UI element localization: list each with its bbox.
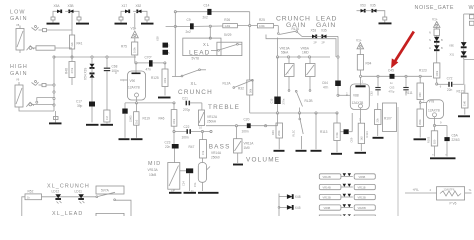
- svg-text:R119: R119: [143, 117, 151, 121]
- svg-text:R46: R46: [159, 117, 165, 121]
- relay coil box VR14B: [319, 184, 341, 189]
- opto couplers left column: [156, 36, 176, 77]
- svg-text:VR11A: VR11A: [244, 141, 255, 145]
- wire pot2 bottom to ground row: [19, 107, 54, 111]
- ground under R107: [373, 137, 384, 139]
- potentiometer VR19A: [280, 47, 295, 92]
- relay switch RL3C: [292, 113, 304, 149]
- resistor R114: [358, 123, 369, 151]
- svg-text:P V6: P V6: [450, 202, 457, 206]
- triode V78: [423, 99, 444, 131]
- svg-text:B: B: [441, 38, 443, 42]
- relay outline XL LEAD: [183, 38, 221, 56]
- capacitor C68: [104, 56, 119, 110]
- svg-text:R47: R47: [189, 145, 195, 149]
- wire diode node down: [65, 10, 69, 12]
- wire node to R41: [47, 29, 73, 31]
- svg-text:X5A: X5A: [54, 4, 61, 8]
- footswitch lever: [96, 192, 116, 200]
- svg-text:12AX7FIL: 12AX7FIL: [444, 188, 456, 192]
- svg-text:5V78: 5V78: [192, 57, 200, 61]
- svg-text:22/63: 22/63: [128, 115, 132, 122]
- svg-text:C22: C22: [184, 125, 190, 129]
- svg-text:270p: 270p: [183, 108, 190, 112]
- LED LD12: [52, 190, 62, 204]
- wire FIL right: [465, 192, 472, 194]
- ground under C19: [119, 138, 130, 140]
- wire FIL left: [405, 192, 437, 194]
- svg-text:RL2A: RL2A: [223, 81, 232, 85]
- svg-text:VR13B: VR13B: [358, 196, 366, 200]
- wire gain return y38.7: [266, 35, 336, 58]
- svg-text:C64: C64: [322, 81, 328, 85]
- svg-text:V1+: V1+: [432, 17, 438, 21]
- svg-text:R25: R25: [259, 18, 265, 22]
- svg-text:VR14A: VR14A: [211, 151, 222, 155]
- potentiometer VR14A BASS: [198, 163, 210, 192]
- ground under RL3C: [296, 150, 307, 152]
- capacitor C9: [186, 18, 194, 34]
- resistor series low input: [27, 46, 73, 51]
- svg-text:V88: V88: [353, 94, 359, 98]
- potentiometer VR12A TREBLE: [199, 103, 205, 130]
- coupler arrows row4: [341, 204, 353, 207]
- svg-text:X35: X35: [370, 4, 376, 8]
- wire bus to rear switches: [278, 194, 280, 217]
- svg-text:1k5: 1k5: [359, 136, 363, 141]
- svg-text:R114: R114: [365, 131, 369, 138]
- node V1+ noise gate: [432, 17, 440, 27]
- svg-text:2P: 2P: [314, 41, 317, 45]
- box pad gnd: [54, 117, 59, 120]
- wire X52 right leg: [142, 11, 148, 17]
- ground under X35: [379, 22, 392, 24]
- wire X17 left leg: [121, 11, 125, 17]
- diode X22: [429, 42, 443, 50]
- svg-text:LOW: LOW: [10, 10, 26, 16]
- treble wiper wire row: [206, 125, 278, 127]
- triode V88: [346, 75, 369, 124]
- cathode node wire: [125, 102, 174, 104]
- svg-text:12AX7B: 12AX7B: [128, 86, 140, 90]
- diode X35: [321, 29, 327, 45]
- svg-text:100k: 100k: [133, 47, 137, 53]
- svg-text:100k: 100k: [163, 77, 167, 83]
- svg-text:X35: X35: [321, 29, 327, 33]
- svg-text:R75: R75: [121, 45, 127, 49]
- resistor R105: [417, 109, 424, 138]
- svg-text:2n2: 2n2: [203, 15, 209, 19]
- resistor R75: [121, 38, 138, 63]
- node V1+: [131, 26, 139, 38]
- svg-text:1MD: 1MD: [302, 51, 309, 55]
- svg-text:470k: 470k: [335, 132, 339, 138]
- svg-text:100k: 100k: [259, 24, 265, 28]
- wire bottom bus y113: [250, 112, 338, 126]
- resistor R41: [70, 30, 83, 57]
- svg-text:V1+: V1+: [356, 39, 362, 43]
- svg-text:X17: X17: [122, 4, 128, 8]
- svg-text:X9E: X9E: [449, 43, 454, 47]
- diode X5A: [54, 4, 62, 13]
- ground under R113: [331, 153, 342, 155]
- svg-text:47n: 47n: [146, 68, 152, 72]
- svg-text:R48: R48: [65, 68, 69, 74]
- svg-text:R113: R113: [320, 130, 328, 134]
- capacitor C69: [340, 113, 353, 143]
- svg-text:VR14B: VR14B: [323, 186, 331, 190]
- wire top bus y57: [54, 56, 136, 58]
- svg-text:260k: 260k: [277, 130, 281, 136]
- svg-text:250kA: 250kA: [207, 120, 217, 124]
- noise gate input diodes: [464, 14, 474, 42]
- diode X48: [279, 194, 301, 199]
- relay switch RL2B: [295, 90, 312, 113]
- ground under R105: [414, 138, 427, 140]
- svg-text:2n2: 2n2: [186, 30, 192, 34]
- ground under R119: [131, 138, 143, 140]
- wire R52 to LEDs: [42, 196, 97, 198]
- shared ground bar: [430, 154, 456, 159]
- resistor R103: [427, 131, 438, 157]
- svg-text:BASS: BASS: [209, 144, 231, 151]
- svg-text:R32: R32: [238, 87, 244, 91]
- svg-text:R103: R103: [427, 136, 431, 143]
- potentiometer VR high-gain: [15, 82, 23, 107]
- ground under R114: [355, 152, 367, 154]
- section label MID: [148, 161, 162, 177]
- svg-text:VR20B: VR20B: [358, 206, 366, 210]
- capacitor C64: [322, 56, 350, 97]
- box pad high input: [42, 84, 46, 87]
- relay coil box VR11B: [354, 184, 375, 189]
- svg-text:B: B: [441, 46, 443, 50]
- svg-text:1M0: 1M0: [244, 146, 250, 150]
- ground top right: [458, 115, 470, 117]
- box pad right: [77, 17, 81, 20]
- svg-text:22n: 22n: [447, 88, 453, 92]
- svg-text:RL2B: RL2B: [305, 99, 313, 103]
- ground mute leg: [311, 150, 322, 152]
- resistor R46: [159, 103, 177, 132]
- ground X52: [141, 20, 154, 24]
- ground under R120: [101, 124, 114, 126]
- box input pad: [43, 29, 47, 32]
- svg-text:LD11: LD11: [75, 190, 83, 194]
- jack switch high input: [32, 81, 39, 86]
- wire jack to bus: [39, 84, 43, 86]
- resistor R121: [457, 84, 469, 114]
- svg-text:1k5: 1k5: [134, 119, 138, 124]
- svg-text:C9: C9: [187, 18, 191, 22]
- wire node to switch bus: [71, 13, 73, 30]
- potentiometer VR low-gain: [16, 26, 24, 51]
- wire diode mid node down: [133, 10, 137, 12]
- svg-text:V8: V8: [16, 23, 20, 27]
- wire diode pair left leg: [53, 11, 57, 17]
- resistor R125: [151, 63, 168, 96]
- svg-text:C70*: C70*: [145, 56, 153, 60]
- label XL LEAD: [189, 42, 211, 56]
- resistor R120: [104, 110, 110, 124]
- resistor R26: [223, 18, 258, 28]
- capacitor C21: [173, 96, 202, 112]
- resistor R119: [134, 103, 151, 138]
- box pad left: [51, 17, 55, 20]
- svg-text:56kA: 56kA: [281, 51, 289, 55]
- resistor R49: [271, 123, 283, 149]
- svg-text:V9: V9: [16, 78, 20, 82]
- svg-text:V90: V90: [130, 79, 136, 83]
- svg-text:VR12A: VR12A: [207, 115, 218, 119]
- svg-text:X48: X48: [295, 195, 301, 199]
- ground under R125: [158, 97, 171, 99]
- svg-text:1M: 1M: [105, 116, 109, 120]
- svg-text:47k: 47k: [201, 150, 205, 155]
- svg-text:100n: 100n: [242, 130, 249, 134]
- resistor R48: [65, 56, 76, 85]
- svg-text:100n: 100n: [182, 136, 189, 140]
- svg-text:X54 X39: X54 X39: [84, 68, 88, 80]
- svg-text:C20: C20: [244, 118, 250, 122]
- diode pair X53b: [357, 4, 387, 23]
- svg-text:R41: R41: [77, 42, 83, 46]
- svg-text:22k: 22k: [376, 118, 380, 123]
- svg-text:N: N: [429, 31, 431, 35]
- svg-text:RL3C: RL3C: [292, 130, 296, 137]
- svg-text:56k: 56k: [249, 88, 253, 93]
- relay coil box VR20B: [354, 205, 375, 210]
- svg-text:V1+: V1+: [131, 26, 137, 30]
- relay coil box VR9B: [319, 205, 341, 210]
- svg-text:C72: C72: [447, 77, 453, 81]
- node V1+ feed: [356, 39, 364, 55]
- svg-text:X31: X31: [450, 53, 455, 57]
- svg-text:C15: C15: [270, 98, 274, 103]
- capacitor C22 labels: [182, 125, 190, 140]
- svg-text:VR13A: VR13A: [148, 168, 159, 172]
- svg-text:CRUNCH: CRUNCH: [178, 89, 213, 96]
- resistor R25: [257, 18, 278, 28]
- svg-text:470p: 470p: [389, 89, 395, 93]
- svg-text:LEAD: LEAD: [189, 50, 211, 57]
- relay coil box VR13Bb: [354, 194, 375, 199]
- diode X53: [311, 29, 317, 45]
- resistor R47: [189, 132, 207, 163]
- filament box P V6: [437, 187, 465, 206]
- svg-text:R123: R123: [419, 69, 427, 73]
- svg-text:100k: 100k: [435, 70, 439, 76]
- svg-text:1M0: 1M0: [418, 92, 422, 98]
- resistor R94: [357, 55, 371, 77]
- svg-text:47n: 47n: [323, 86, 329, 90]
- svg-text:NOISE_GATE: NOISE_GATE: [415, 5, 455, 11]
- svg-text:MID: MID: [148, 161, 161, 167]
- svg-text:A: A: [429, 46, 431, 50]
- svg-text:X3B: X3B: [68, 4, 74, 8]
- svg-text:VR6B: VR6B: [359, 175, 366, 179]
- junction node C9-R26: [209, 25, 211, 39]
- svg-text:0: 0: [115, 71, 117, 75]
- svg-text:470k: 470k: [70, 67, 74, 73]
- svg-text:C69: C69: [350, 137, 354, 142]
- capacitor C63: [389, 76, 409, 95]
- diode X31: [450, 48, 467, 60]
- ground row tone stack: [169, 189, 219, 193]
- net label +FIL: [413, 188, 432, 192]
- svg-text:C21: C21: [182, 96, 188, 100]
- svg-text:1M0: 1M0: [463, 100, 467, 106]
- coupler arrows row1: [341, 173, 353, 176]
- box pad X52: [145, 17, 149, 20]
- svg-text:RL30: RL30: [292, 27, 300, 31]
- svg-text:22k: 22k: [70, 42, 74, 47]
- svg-text:X53: X53: [311, 29, 317, 33]
- notch wire C45 row: [359, 75, 432, 77]
- relay coil box VR12B: [319, 174, 341, 179]
- potentiometer VR13A: [168, 163, 180, 192]
- jack switch low input: [32, 26, 39, 31]
- wire gain bus y57: [276, 38, 330, 59]
- svg-text:C24: C24: [181, 181, 185, 186]
- svg-text:R125: R125: [151, 76, 159, 80]
- resistor R113: [320, 113, 340, 152]
- diode clip X39: [90, 73, 95, 77]
- feedback wire C14 top: [174, 11, 250, 26]
- wire mute leg: [315, 113, 317, 149]
- tone wire C22 row: [173, 129, 212, 134]
- svg-text:W: W: [469, 5, 474, 11]
- svg-text:1u5k: 1u5k: [225, 24, 231, 28]
- bus vertical with taps: [53, 56, 55, 111]
- resistor R107 relay box: [375, 103, 397, 136]
- section label BASS: [209, 144, 231, 160]
- red annotation arrow: [391, 32, 414, 69]
- svg-text:TREBLE: TREBLE: [208, 104, 240, 111]
- diode X52: [136, 4, 142, 13]
- potentiometer VR11A VOLUME: [234, 126, 255, 163]
- ground low-left: [47, 20, 60, 24]
- svg-text:820: 820: [432, 139, 436, 144]
- svg-text:22n: 22n: [165, 145, 171, 149]
- diode X17: [122, 4, 130, 13]
- ground under R49: [274, 150, 285, 152]
- box connector P2: [469, 21, 474, 25]
- svg-text:VR11B: VR11B: [358, 186, 366, 190]
- capacitor C62: [370, 76, 381, 96]
- relay switch RL2A: [172, 69, 206, 77]
- section title LOW GAIN: [10, 10, 28, 28]
- capacitor C17: [76, 100, 95, 123]
- coupler arrows row5: [343, 214, 351, 216]
- wire footswitch right: [116, 200, 132, 216]
- footswitch box 5V7A: [96, 186, 124, 194]
- diode X3B: [68, 4, 74, 13]
- svg-text:R94: R94: [366, 62, 372, 66]
- svg-text:2P: 2P: [322, 41, 325, 45]
- wire diode pair right leg: [74, 11, 80, 17]
- svg-text:X45: X45: [295, 206, 301, 210]
- LED LD11: [75, 190, 85, 204]
- svg-text:XL: XL: [191, 81, 198, 86]
- svg-text:VR13B: VR13B: [323, 196, 331, 200]
- section label TREBLE: [207, 104, 240, 124]
- capacitor C19 22/63: [122, 103, 132, 138]
- svg-text:39p: 39p: [77, 104, 83, 108]
- svg-text:C23: C23: [165, 140, 171, 144]
- coupler arrows row2: [341, 184, 353, 187]
- svg-text:R52: R52: [28, 189, 34, 193]
- ground low-right: [76, 20, 89, 24]
- svg-text:C6A: C6A: [452, 133, 459, 137]
- capacitor C72: [437, 60, 474, 92]
- capacitor C45: [388, 68, 395, 85]
- wire mid bus y26: [166, 12, 223, 43]
- resistor R122: [429, 27, 440, 35]
- label XL CRUNCH: [178, 81, 213, 96]
- svg-text:XL_LEAD: XL_LEAD: [52, 211, 83, 216]
- relay box XL LEAD: [211, 42, 242, 55]
- wire jack to node: [39, 29, 43, 31]
- capacitor C23: [165, 132, 179, 163]
- svg-text:X58: X58: [156, 36, 160, 41]
- resistor R106: [406, 76, 427, 109]
- svg-text:C63: C63: [390, 85, 395, 89]
- diode X9E: [449, 42, 467, 47]
- svg-text:R111: R111: [406, 91, 413, 95]
- box footswitch lead: [96, 213, 124, 216]
- svg-text:250k0: 250k0: [211, 156, 220, 160]
- relay coil box VR6B: [354, 174, 375, 179]
- capacitor C70: [145, 56, 166, 72]
- svg-text:VR9B: VR9B: [324, 206, 331, 210]
- potentiometer VR6A: [301, 47, 316, 92]
- resistor R123: [419, 51, 440, 85]
- svg-text:22/63: 22/63: [452, 138, 460, 142]
- svg-text:C62: C62: [370, 91, 374, 96]
- resistor R52: [25, 189, 42, 199]
- svg-text:10kB: 10kB: [149, 173, 156, 177]
- svg-text:X52: X52: [136, 4, 142, 8]
- svg-text:VR12B: VR12B: [323, 175, 331, 179]
- svg-text:GAIN: GAIN: [10, 16, 28, 22]
- wire plate node: [135, 62, 149, 64]
- capacitor C24: [180, 168, 197, 191]
- diode X45: [279, 205, 301, 210]
- svg-text:+FIL: +FIL: [413, 188, 420, 192]
- svg-text:5V7A: 5V7A: [101, 188, 110, 192]
- section title HIGH GAIN: [10, 64, 28, 82]
- relay switch RL2B lever: [223, 79, 254, 88]
- relay switch RL30: [277, 26, 312, 37]
- section title LEAD GAIN: [316, 16, 337, 30]
- svg-text:100k: 100k: [172, 118, 176, 124]
- wire diodes to lead pot: [316, 36, 338, 80]
- coupler arrows row3: [341, 194, 353, 197]
- svg-text:390k: 390k: [418, 119, 422, 125]
- svg-text:12AX7B: 12AX7B: [428, 108, 440, 112]
- svg-text:X53: X53: [360, 4, 366, 8]
- svg-text:270n: 270n: [281, 98, 285, 104]
- diode clip X54: [84, 64, 95, 80]
- triode V90: [115, 63, 146, 103]
- box pad X17: [119, 17, 123, 20]
- relay coil box row5 left: [319, 215, 341, 216]
- svg-text:R107: R107: [384, 116, 392, 120]
- section title CRUNCH GAIN: [276, 16, 311, 30]
- capacitor C6A: [435, 126, 460, 157]
- svg-text:N: N: [429, 38, 431, 42]
